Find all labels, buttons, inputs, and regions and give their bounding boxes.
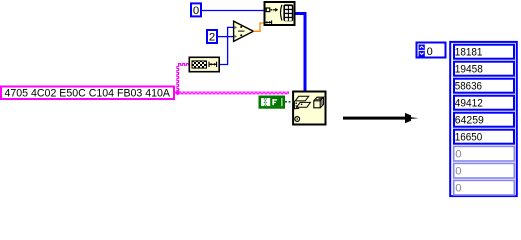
svg-text:0: 0	[455, 165, 461, 177]
svg-text:58636: 58636	[455, 80, 482, 92]
svg-text:4705 4C02 E50C C104 FB03 410A: 4705 4C02 E50C C104 FB03 410A	[5, 87, 171, 99]
svg-text:2: 2	[209, 31, 215, 43]
svg-text:0: 0	[455, 182, 461, 194]
svg-text:49412: 49412	[455, 97, 483, 109]
svg-text:0: 0	[455, 148, 461, 160]
svg-text:16650: 16650	[455, 131, 483, 143]
svg-text:64259: 64259	[455, 114, 484, 126]
svg-text:0: 0	[427, 46, 433, 58]
svg-text:0: 0	[193, 5, 199, 17]
svg-text:19458: 19458	[455, 63, 483, 75]
svg-text:18181: 18181	[455, 46, 483, 58]
